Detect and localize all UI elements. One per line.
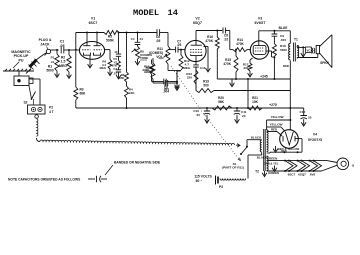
wire cartridge to P2 xyxy=(29,79,40,105)
wire R5 to C6 xyxy=(118,32,157,34)
heater bottom rail xyxy=(267,170,322,175)
svg-text:V4: V4 xyxy=(313,133,317,137)
+245 to +275 drop xyxy=(247,79,249,109)
R18 to screen node xyxy=(273,56,275,79)
svg-text:C12: C12 xyxy=(300,110,306,114)
svg-text:500K: 500K xyxy=(106,38,115,42)
T1 primary bottom wire xyxy=(283,61,290,80)
transformer T1 label xyxy=(294,38,298,42)
V3 internals xyxy=(253,41,266,54)
B plus riser xyxy=(289,79,291,120)
resistor R15 470K xyxy=(223,49,238,72)
svg-text:I1: I1 xyxy=(352,163,355,167)
svg-text:5Y3GT/G: 5Y3GT/G xyxy=(308,138,323,142)
svg-text:470K: 470K xyxy=(205,39,213,43)
svg-text:TONE: TONE xyxy=(140,56,148,60)
resistor R7 47K xyxy=(112,57,121,68)
resistor R10 330K xyxy=(144,58,155,79)
svg-text:4 T: 4 T xyxy=(49,110,54,114)
svg-text:.05: .05 xyxy=(60,44,65,48)
line cord coil xyxy=(220,179,246,181)
wire rail to R8 xyxy=(126,33,128,73)
svg-text:465K: 465K xyxy=(118,76,126,80)
svg-text:470K: 470K xyxy=(236,42,244,46)
T2 HV secondary winding xyxy=(267,130,269,152)
resistor R12 4.7MEG xyxy=(179,50,191,71)
svg-text:PLUG &: PLUG & xyxy=(39,38,52,42)
labels P1 J1 xyxy=(51,56,55,64)
svg-text:20: 20 xyxy=(242,114,246,118)
potentiometer R11 VOL xyxy=(149,46,170,64)
svg-text:10: 10 xyxy=(114,50,118,54)
resistor R1 5600 xyxy=(46,50,59,72)
svg-text:(PART OF R11): (PART OF R11) xyxy=(222,166,244,170)
wire C8 down xyxy=(229,31,231,50)
wire R16 to +245 rail xyxy=(216,49,218,79)
svg-text:BLUE: BLUE xyxy=(279,26,288,30)
ground under R9 xyxy=(135,59,140,65)
V2 cathode cap C13 xyxy=(193,56,205,91)
T1 secondary bottom wire xyxy=(297,58,318,59)
svg-text:C4: C4 xyxy=(131,37,135,41)
voice coil VC xyxy=(306,47,315,53)
resistor R6 3.3MEG xyxy=(100,60,112,71)
potentiometer R9 TONE xyxy=(132,45,153,61)
tube V2 6SQ7 label xyxy=(193,17,202,25)
T2 heater winding xyxy=(267,156,269,170)
svg-text:.02: .02 xyxy=(224,37,229,41)
svg-text:GRN & YEL: GRN & YEL xyxy=(263,162,278,166)
label +275 xyxy=(269,103,277,107)
V1 plate leads xyxy=(87,33,97,42)
P2 lower circle xyxy=(35,115,39,119)
heater 6SQ7 xyxy=(298,161,310,177)
top rail xyxy=(76,32,104,34)
resistor R4 10K xyxy=(125,82,136,98)
resistor R3 68K xyxy=(74,50,86,108)
svg-text:BANDED OR NEGATIVE SIDE: BANDED OR NEGATIVE SIDE xyxy=(114,161,161,165)
wire 5V tap xyxy=(267,119,292,130)
back bias line xyxy=(214,90,290,92)
resistor R10 330K xyxy=(142,60,153,75)
wire 5V tap 2 xyxy=(267,127,285,131)
R11 bottom wire xyxy=(168,64,177,71)
capacitor C11 20 xyxy=(234,108,247,123)
V4 plate return xyxy=(267,139,302,154)
svg-text:220: 220 xyxy=(187,76,192,80)
ground arrow at VC xyxy=(301,47,306,57)
tube V1 envelope xyxy=(79,42,104,60)
svg-text:6SC7: 6SC7 xyxy=(288,172,296,176)
V2 plate lead xyxy=(195,31,197,41)
T2 label xyxy=(255,170,267,177)
B minus bus xyxy=(76,107,205,109)
resistor R20 56K xyxy=(212,96,232,110)
tube V2 envelope xyxy=(185,40,206,61)
svg-text:NOTE CAPACITORS ORIENTED AS: NOTE CAPACITORS ORIENTED AS FOLLOWS xyxy=(8,177,81,181)
svg-text:330: 330 xyxy=(243,66,248,70)
magnetic pickup label xyxy=(11,50,31,68)
V3 cathode resistor R17 330 xyxy=(243,58,253,71)
label BLUE xyxy=(279,26,288,30)
jack J1 xyxy=(45,49,51,55)
heater 6V6 xyxy=(310,161,322,177)
svg-text:56K: 56K xyxy=(218,100,225,104)
note banded side xyxy=(114,161,161,165)
svg-text:S2: S2 xyxy=(23,100,27,104)
svg-text:YELLOW: YELLOW xyxy=(270,122,283,126)
svg-text:10K: 10K xyxy=(252,100,259,104)
speaker SPKR xyxy=(316,35,332,68)
label RED YELLOW xyxy=(278,147,300,153)
svg-text:14: 14 xyxy=(168,8,178,18)
svg-text:T2: T2 xyxy=(255,170,259,174)
resistor R5 500K xyxy=(104,31,119,43)
label BLACK bottom xyxy=(248,153,268,179)
heater top rail xyxy=(267,156,327,161)
capacitor C6b .004 xyxy=(152,74,178,91)
ground under R2 xyxy=(67,72,72,78)
resistor R19 500 xyxy=(196,79,214,92)
svg-text:P3: P3 xyxy=(219,185,223,189)
T1 primary winding xyxy=(289,31,291,60)
V4 plates xyxy=(283,136,302,142)
svg-text:VC: VC xyxy=(306,48,310,52)
resistor R16 470K xyxy=(205,31,219,50)
capacitor C8 .02 xyxy=(223,28,230,42)
tube V1 6SC7 label xyxy=(89,17,98,25)
ground under chain xyxy=(116,72,121,79)
T1 secondary top wire xyxy=(297,46,305,49)
label +245 xyxy=(260,75,268,79)
svg-text:6SQ7: 6SQ7 xyxy=(298,172,306,176)
+275 rail xyxy=(205,107,304,109)
label RED xyxy=(271,127,277,131)
V4 filament xyxy=(285,120,293,145)
svg-text:BLACK: BLACK xyxy=(251,135,262,139)
svg-text:P2: P2 xyxy=(49,105,53,109)
T1 core xyxy=(294,43,296,62)
capacitor C12 20 xyxy=(300,108,312,126)
rectifier V4 label xyxy=(308,133,323,142)
tube V3 envelope xyxy=(250,41,268,59)
V1 cathode lead and ground xyxy=(88,55,93,68)
label YELLOW 1 xyxy=(271,115,284,119)
capacitor C7 .05 xyxy=(168,39,181,52)
T2 primary winding xyxy=(260,140,262,152)
wire jack to C1 xyxy=(51,49,59,51)
tube V4 envelope xyxy=(280,130,299,149)
svg-text:6V6GT: 6V6GT xyxy=(254,21,266,25)
capacitor C3 .01 xyxy=(113,67,121,75)
svg-text:60 ~: 60 ~ xyxy=(196,179,203,183)
T2 core xyxy=(264,129,266,171)
wire V3 plate to T1 xyxy=(259,30,291,32)
label 115 VOLTS xyxy=(194,174,212,182)
svg-text:PU: PU xyxy=(19,58,24,62)
svg-text:GREEN: GREEN xyxy=(267,156,278,160)
svg-text:YELLOW: YELLOW xyxy=(271,115,284,119)
svg-text:MEG: MEG xyxy=(100,66,106,70)
plug P2 xyxy=(28,99,54,114)
svg-text:20: 20 xyxy=(197,113,201,117)
plug and jack label xyxy=(39,38,52,50)
capacitor C9 .004 xyxy=(272,31,287,42)
capacitor C6b .004 xyxy=(153,79,177,94)
svg-text:20: 20 xyxy=(308,115,312,119)
tone net junction xyxy=(175,71,181,90)
svg-text:C13: C13 xyxy=(200,66,206,70)
note text xyxy=(8,176,107,182)
label YELLOW 2 xyxy=(270,122,283,126)
svg-text:+245: +245 xyxy=(260,75,268,79)
svg-text:6SQ7: 6SQ7 xyxy=(193,21,202,25)
svg-text:RED: RED xyxy=(271,127,277,131)
svg-text:5600: 5600 xyxy=(280,48,287,52)
wire cable to switch xyxy=(236,144,240,148)
capacitor C6 .05 xyxy=(156,29,161,43)
resistor R13 220 xyxy=(186,67,198,84)
svg-text:.004: .004 xyxy=(280,38,286,42)
V1 triode 2 internals xyxy=(94,42,103,55)
svg-text:.01: .01 xyxy=(139,37,143,41)
plug P3 xyxy=(216,176,224,189)
ground under R6 xyxy=(108,69,113,76)
svg-text:10K: 10K xyxy=(129,91,135,95)
V2 internals xyxy=(190,40,202,55)
V1 grid2 pin wire xyxy=(105,50,110,60)
svg-text:6SC7: 6SC7 xyxy=(89,21,98,25)
svg-text:.05: .05 xyxy=(177,43,182,47)
tone net junction xyxy=(175,71,181,89)
+245 rail xyxy=(217,78,290,80)
V2 grid pin xyxy=(180,49,185,51)
resistor R14 470K xyxy=(230,38,251,51)
svg-text:.01: .01 xyxy=(113,71,117,75)
capacitor C5 10 xyxy=(113,33,121,61)
V1 triode 1 internals xyxy=(82,42,91,55)
T1 secondary winding xyxy=(297,46,299,58)
svg-text:T1: T1 xyxy=(294,38,298,42)
svg-text:+275: +275 xyxy=(269,103,277,107)
ground under R17 xyxy=(248,71,253,77)
wire R13 to R19 xyxy=(195,84,197,91)
wire C6 to vol pot xyxy=(160,33,168,47)
title MODEL 14 xyxy=(133,8,178,18)
svg-text:500: 500 xyxy=(203,83,209,87)
svg-text:6V6: 6V6 xyxy=(310,172,316,176)
switch S2 xyxy=(23,81,35,105)
pickup cable to plug P1 xyxy=(26,53,47,74)
capacitor C10 20 xyxy=(193,108,210,123)
resistor R21 10K xyxy=(248,96,262,110)
svg-text:GREEN: GREEN xyxy=(268,171,279,175)
pickup cartridge M1 xyxy=(14,76,33,86)
svg-text:JACK: JACK xyxy=(40,42,50,46)
wire C1 to grid xyxy=(64,49,79,51)
wire HV top RED xyxy=(267,132,282,137)
label BLACK top xyxy=(247,135,262,139)
ground arrow under V4 xyxy=(273,146,278,152)
svg-text:5600: 5600 xyxy=(46,68,54,72)
svg-text:RED: RED xyxy=(283,64,289,68)
svg-text:MEG: MEG xyxy=(183,66,191,70)
capacitor C1 .05 xyxy=(60,40,65,54)
node A xyxy=(56,49,58,51)
resistor R18 5600 xyxy=(272,37,287,57)
svg-text:MEG: MEG xyxy=(59,64,67,68)
svg-text:.05: .05 xyxy=(156,39,161,43)
svg-text:MODEL: MODEL xyxy=(133,8,159,18)
wire R15 to rail xyxy=(235,72,237,79)
svg-text:115 VOLTS: 115 VOLTS xyxy=(194,174,212,178)
rail ground arrow xyxy=(230,79,235,87)
switch S1 xyxy=(222,140,248,170)
svg-text:SPKR: SPKR xyxy=(320,61,330,65)
node B xyxy=(68,49,70,51)
twisted pair cable from P2 xyxy=(37,119,235,145)
svg-text:J1: J1 xyxy=(51,60,55,64)
resistor R2 1.5MEG xyxy=(59,50,71,72)
tone arm xyxy=(3,69,34,76)
svg-text:330K: 330K xyxy=(144,70,152,74)
V1 grid feedback riser xyxy=(75,33,77,51)
pilot lamp I1 xyxy=(322,158,355,171)
svg-text:470K: 470K xyxy=(223,62,231,66)
V3 plate lead xyxy=(258,31,260,41)
V3 screen lead xyxy=(267,51,276,59)
heater 6SC7 xyxy=(285,161,297,177)
svg-text:.004: .004 xyxy=(163,90,169,94)
ground under R1 xyxy=(55,71,60,77)
capacitor C4 .01 xyxy=(131,33,144,45)
label GRN YEL CT xyxy=(263,162,278,172)
tube V3 6V6GT label xyxy=(254,17,266,25)
note pointer xyxy=(105,165,113,175)
resistor R8 465K xyxy=(118,72,129,82)
V2 diode return ground xyxy=(204,47,211,72)
svg-text:68K: 68K xyxy=(80,91,87,95)
dashed gang linkage xyxy=(171,66,240,161)
wire V2 plate rail xyxy=(196,30,222,32)
svg-text:RED: RED xyxy=(281,149,287,153)
wire R4 to bus xyxy=(126,98,128,109)
